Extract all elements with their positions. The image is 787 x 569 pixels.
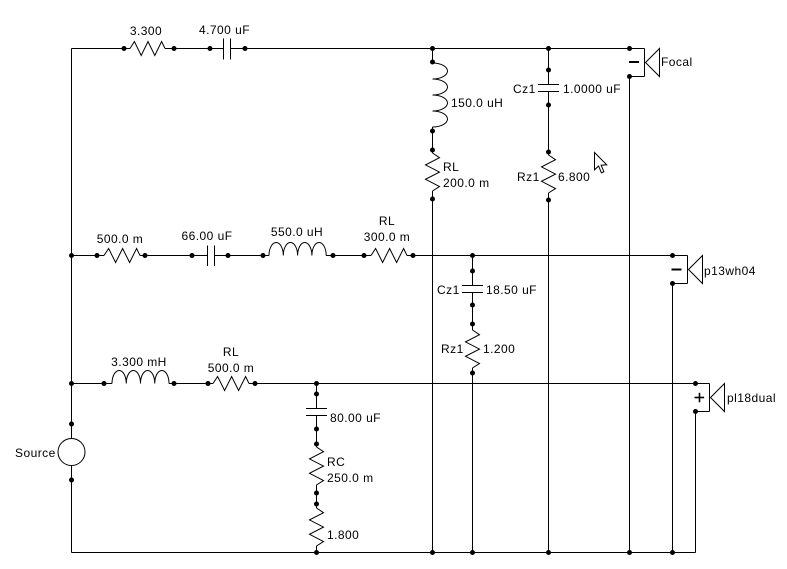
inductor 3.300 mH xyxy=(112,370,169,383)
resistor Rz1 1.200 xyxy=(466,330,480,368)
svg-text:Source: Source xyxy=(15,446,56,460)
wire pl18dual bottom terminal xyxy=(696,411,710,413)
junction third rail L3 left xyxy=(102,381,107,386)
wire mid rail corner to R2 xyxy=(72,255,105,257)
wire RC to R 1.800 xyxy=(316,485,318,508)
minus terminal Focal xyxy=(629,61,639,63)
junction RL bottom xyxy=(430,197,435,202)
junction C3 bottom xyxy=(314,427,319,432)
speaker pl18dual terminal bar xyxy=(709,384,711,412)
capacitor Cz1 1.0000 uF xyxy=(538,85,559,92)
junction Focal bottom xyxy=(627,74,632,79)
junction top rail R1 right xyxy=(172,46,177,51)
wire R 1.800 to bottom rail xyxy=(316,546,318,553)
wire Cz1 mid to Rz1 xyxy=(472,293,474,331)
junction p13wh04 bottom xyxy=(670,281,675,286)
junction top rail C1 right xyxy=(243,46,248,51)
wire third rail RL to pl18dual xyxy=(249,383,710,385)
capacitor Cz1 18.50 uF xyxy=(462,286,483,293)
junction Rz1 bottom xyxy=(546,198,551,203)
source V1 circle xyxy=(58,439,85,466)
svg-text:500.0 m: 500.0 m xyxy=(208,361,255,375)
svg-text:1.0000 uF: 1.0000 uF xyxy=(563,82,621,96)
junction top rail R1 left xyxy=(122,46,127,51)
junction mid rail p13 return xyxy=(670,253,675,258)
svg-text:4.700 uF: 4.700 uF xyxy=(199,23,250,37)
junction Cz1 mid top xyxy=(470,269,475,274)
wire top rail segment corner to R1 xyxy=(72,48,131,50)
svg-text:RL: RL xyxy=(443,160,459,174)
junction pl18dual bottom xyxy=(693,409,698,414)
junction source bottom xyxy=(69,478,74,483)
junction mid rail R2 left xyxy=(95,253,100,258)
junction mid rail RL left xyxy=(362,253,367,258)
wire top rail C1 to Focal xyxy=(231,48,645,50)
svg-text:1.800: 1.800 xyxy=(327,528,359,542)
junction RC branch upper xyxy=(314,392,319,397)
wire Focal return xyxy=(629,77,631,553)
wire Cz1 to Rz1 xyxy=(548,92,550,156)
wire third rail L3 to RL xyxy=(169,383,213,385)
junction bottom rail RC branch xyxy=(314,550,319,555)
svg-text:250.0 m: 250.0 m xyxy=(327,471,374,485)
wire Cz1 branch top xyxy=(548,49,550,85)
wire shunt branch top to coil xyxy=(432,49,434,64)
wire coil to RL xyxy=(432,127,434,153)
junction RC top xyxy=(314,442,319,447)
capacitor 66.00 uF xyxy=(208,246,215,267)
capacitor 80.00 uF xyxy=(306,409,327,416)
junction bottom rail p13 return xyxy=(670,550,675,555)
junction mid rail C2 left xyxy=(190,253,195,258)
junction Rz1 mid bottom xyxy=(470,371,475,376)
junction top rail Focal return xyxy=(627,46,632,51)
junction R 1.800 top xyxy=(314,502,319,507)
svg-text:RC: RC xyxy=(327,455,345,469)
wire p13wh04 return xyxy=(672,284,674,553)
svg-text:Rz1: Rz1 xyxy=(517,170,540,184)
junction mid rail C2 right xyxy=(226,253,231,258)
plus terminal pl18dual xyxy=(695,393,705,403)
wire third rail corner to L3 xyxy=(72,383,113,385)
speaker p13wh04 terminal bar xyxy=(687,256,689,284)
junction third rail pl18 return xyxy=(693,381,698,386)
junction mid rail L2 right xyxy=(331,253,336,258)
wire left bus upper xyxy=(71,49,73,439)
svg-text:500.0 m: 500.0 m xyxy=(97,232,144,246)
capacitor 4.700 uF xyxy=(224,39,231,60)
junction Rz1 top xyxy=(546,150,551,155)
junction mid rail left bus xyxy=(69,253,74,258)
junction top rail L branch xyxy=(430,46,435,51)
resistor RL 200.0 m xyxy=(426,153,440,191)
junction Cz1 mid bottom xyxy=(470,303,475,308)
junction top rail Cz1 branch xyxy=(546,46,551,51)
svg-text:Cz1: Cz1 xyxy=(513,82,536,96)
svg-text:300.0 m: 300.0 m xyxy=(364,230,411,244)
junction third rail RL left xyxy=(206,381,211,386)
resistor RL 500.0 m xyxy=(213,377,249,391)
svg-text:18.50 uF: 18.50 uF xyxy=(486,283,537,297)
junction source top xyxy=(69,422,74,427)
wire mid rail C2 to L2 xyxy=(215,255,270,257)
speaker pl18dual cone xyxy=(711,384,725,412)
wire p13wh04 bottom terminal xyxy=(673,283,688,285)
wire mid rail R2 to C2 xyxy=(140,255,208,257)
inductor 550.0 uH xyxy=(269,243,326,256)
wire RL to bottom rail xyxy=(432,191,434,553)
wire Cz1 mid branch top xyxy=(472,256,474,286)
junction RL top xyxy=(430,148,435,153)
junction mid rail R2 right xyxy=(143,253,148,258)
wire Rz1 mid to bottom rail xyxy=(472,368,474,553)
speaker Focal cone xyxy=(646,49,660,77)
speaker p13wh04 cone xyxy=(689,256,703,284)
wire C3 to RC xyxy=(316,416,318,448)
junction third rail left bus xyxy=(69,381,74,386)
junction bottom rail Rz1 mid branch xyxy=(470,550,475,555)
junction Cz1 top xyxy=(546,68,551,73)
svg-text:150.0 uH: 150.0 uH xyxy=(451,96,503,110)
svg-text:200.0 m: 200.0 m xyxy=(443,176,490,190)
junction bottom rail Cz1 branch xyxy=(546,550,551,555)
junction bottom rail shunt L branch xyxy=(430,550,435,555)
svg-text:3.300 mH: 3.300 mH xyxy=(111,355,167,369)
junction mid rail RL right xyxy=(411,253,416,258)
resistor Rz1 6.800 xyxy=(542,155,556,193)
mouse cursor xyxy=(595,153,607,173)
svg-text:1.200: 1.200 xyxy=(483,342,515,356)
speaker Focal terminal bar xyxy=(644,49,646,77)
junction coil bottom xyxy=(430,129,435,134)
wire RC branch top xyxy=(316,384,318,409)
resistor RL 300.0 m xyxy=(371,249,407,263)
svg-text:Rz1: Rz1 xyxy=(441,342,464,356)
resistor RC 250.0 m xyxy=(310,447,324,485)
junction RC bottom xyxy=(314,491,319,496)
resistor 3.300 xyxy=(130,42,165,56)
wire Focal bottom terminal xyxy=(630,76,645,78)
resistor 1.800 xyxy=(310,508,324,546)
wire top rail R1 to C1 xyxy=(165,48,224,50)
svg-text:p13wh04: p13wh04 xyxy=(704,264,756,278)
wire bottom rail xyxy=(72,552,696,554)
wire mid rail RL to p13wh04 xyxy=(407,255,688,257)
wire Rz1 to bottom rail xyxy=(548,193,550,553)
svg-text:Focal: Focal xyxy=(661,55,693,69)
svg-text:pl18dual: pl18dual xyxy=(727,391,776,405)
junction mid rail L2 left xyxy=(261,253,266,258)
junction shunt branch below rail xyxy=(430,60,435,65)
svg-text:80.00 uF: 80.00 uF xyxy=(330,411,381,425)
resistor 500.0 m xyxy=(104,249,140,263)
junction third rail L3 right xyxy=(172,381,177,386)
svg-text:550.0 uH: 550.0 uH xyxy=(271,225,323,239)
minus terminal p13wh04 xyxy=(672,269,682,271)
junction third rail RL right xyxy=(253,381,258,386)
junction Cz1 bottom xyxy=(546,103,551,108)
svg-text:3.300: 3.300 xyxy=(130,24,162,38)
inductor 150.0 uH xyxy=(433,63,448,127)
wire left bus lower xyxy=(71,466,73,553)
svg-text:66.00 uF: 66.00 uF xyxy=(182,229,233,243)
wire mid rail L2 to RL xyxy=(326,255,371,257)
wire pl18dual return xyxy=(695,412,697,553)
junction top rail C1 left xyxy=(208,46,213,51)
junction bottom rail Focal return xyxy=(627,550,632,555)
svg-text:RL: RL xyxy=(379,214,395,228)
svg-text:RL: RL xyxy=(223,345,239,359)
junction third rail RC branch xyxy=(314,381,319,386)
junction mid rail Cz1 branch xyxy=(470,253,475,258)
junction Rz1 mid top xyxy=(470,322,475,327)
svg-text:Cz1: Cz1 xyxy=(437,283,460,297)
svg-text:6.800: 6.800 xyxy=(558,170,590,184)
